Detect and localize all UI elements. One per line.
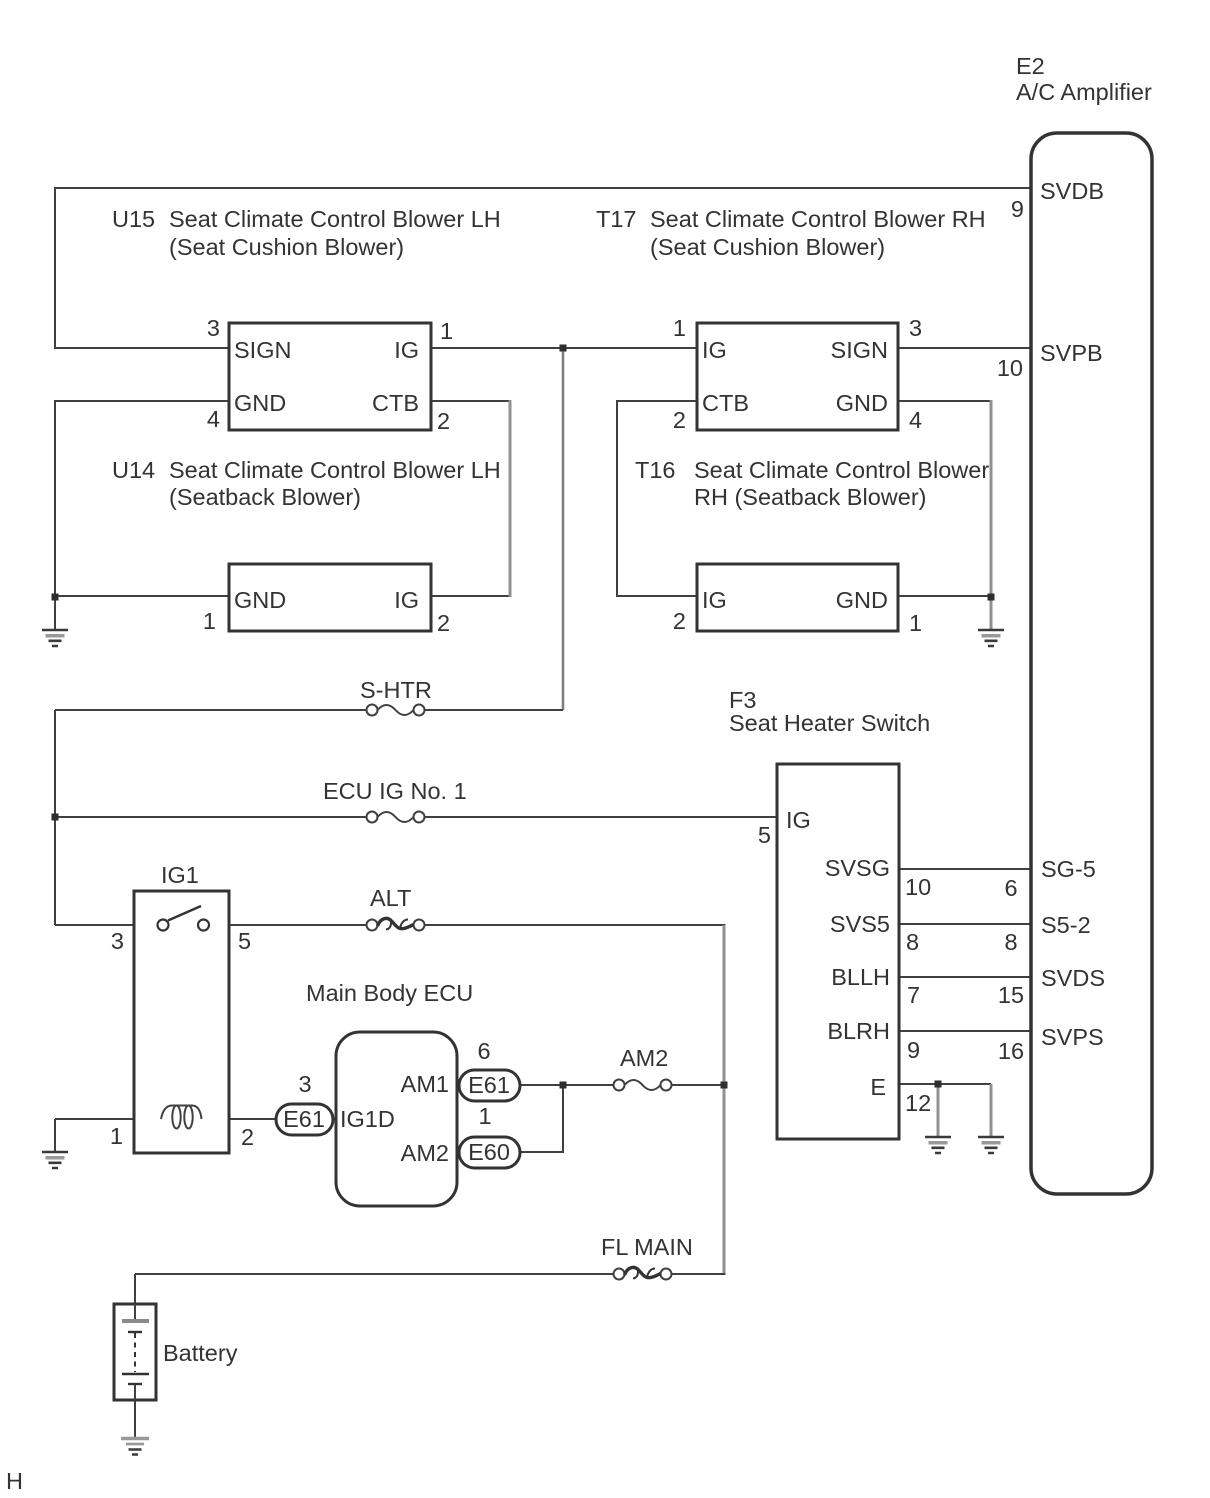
svg-text:10: 10: [997, 355, 1023, 381]
svg-text:SVPB: SVPB: [1040, 340, 1103, 366]
svg-text:SVPS: SVPS: [1041, 1024, 1104, 1050]
svg-text:6: 6: [477, 1038, 490, 1064]
svg-text:S5-2: S5-2: [1041, 912, 1091, 938]
svg-text:(Seatback Blower): (Seatback Blower): [169, 484, 361, 510]
svg-text:Battery: Battery: [163, 1340, 238, 1366]
svg-text:15: 15: [998, 982, 1024, 1008]
svg-text:U15: U15: [112, 206, 155, 232]
svg-text:SIGN: SIGN: [831, 337, 888, 363]
svg-text:H: H: [6, 1468, 23, 1494]
svg-text:Seat Climate Control Blower: Seat Climate Control Blower: [694, 457, 989, 483]
svg-text:GND: GND: [234, 390, 286, 416]
svg-text:E61: E61: [468, 1072, 510, 1098]
svg-text:S-HTR: S-HTR: [360, 677, 432, 703]
svg-text:5: 5: [238, 928, 251, 954]
svg-text:IG: IG: [394, 587, 419, 613]
svg-text:ALT: ALT: [370, 885, 411, 911]
svg-text:1: 1: [909, 610, 922, 636]
svg-text:7: 7: [907, 982, 920, 1008]
svg-text:5: 5: [758, 822, 771, 848]
svg-text:2: 2: [437, 408, 450, 434]
svg-text:SVS5: SVS5: [830, 911, 890, 937]
svg-text:8: 8: [906, 929, 919, 955]
svg-text:3: 3: [298, 1071, 311, 1097]
svg-text:2: 2: [673, 407, 686, 433]
svg-text:3: 3: [909, 315, 922, 341]
svg-text:GND: GND: [234, 587, 286, 613]
svg-text:6: 6: [1004, 875, 1017, 901]
svg-text:Seat Climate Control Blower LH: Seat Climate Control Blower LH: [169, 457, 501, 483]
svg-text:IG: IG: [786, 807, 811, 833]
svg-text:2: 2: [673, 608, 686, 634]
svg-text:10: 10: [905, 874, 931, 900]
svg-text:IG1: IG1: [161, 862, 199, 888]
svg-text:SVDS: SVDS: [1041, 965, 1105, 991]
svg-text:BLRH: BLRH: [827, 1018, 890, 1044]
svg-text:IG: IG: [394, 337, 419, 363]
svg-text:3: 3: [207, 315, 220, 341]
svg-text:8: 8: [1004, 929, 1017, 955]
svg-text:ECU IG No. 1: ECU IG No. 1: [323, 778, 467, 804]
svg-text:AM1: AM1: [401, 1071, 449, 1097]
svg-text:2: 2: [241, 1124, 254, 1150]
svg-text:SG-5: SG-5: [1041, 856, 1096, 882]
svg-text:AM2: AM2: [620, 1045, 668, 1071]
svg-text:9: 9: [907, 1037, 920, 1063]
svg-text:BLLH: BLLH: [831, 964, 890, 990]
svg-text:T16: T16: [635, 457, 676, 483]
svg-text:T17: T17: [596, 206, 637, 232]
svg-text:E2: E2: [1016, 53, 1045, 79]
svg-text:9: 9: [1011, 196, 1024, 222]
svg-text:RH (Seatback Blower): RH (Seatback Blower): [694, 484, 926, 510]
svg-text:4: 4: [207, 406, 220, 432]
svg-text:1: 1: [440, 318, 453, 344]
svg-text:U14: U14: [112, 457, 155, 483]
svg-text:1: 1: [203, 608, 216, 634]
svg-text:GND: GND: [836, 587, 888, 613]
svg-text:Seat Climate Control Blower RH: Seat Climate Control Blower RH: [650, 206, 986, 232]
svg-text:Seat Climate Control Blower LH: Seat Climate Control Blower LH: [169, 206, 501, 232]
svg-text:SVDB: SVDB: [1040, 178, 1104, 204]
svg-text:IG: IG: [702, 587, 727, 613]
svg-text:CTB: CTB: [702, 390, 749, 416]
svg-text:16: 16: [998, 1038, 1024, 1064]
svg-text:AM2: AM2: [401, 1140, 449, 1166]
svg-text:E61: E61: [283, 1106, 325, 1132]
svg-text:1: 1: [478, 1103, 491, 1129]
svg-text:12: 12: [905, 1090, 931, 1116]
svg-text:GND: GND: [836, 390, 888, 416]
svg-text:IG1D: IG1D: [340, 1106, 395, 1132]
svg-text:(Seat Cushion Blower): (Seat Cushion Blower): [169, 234, 404, 260]
svg-text:E60: E60: [468, 1139, 510, 1165]
svg-text:Seat Heater Switch: Seat Heater Switch: [729, 710, 930, 736]
svg-text:IG: IG: [702, 337, 727, 363]
svg-text:1: 1: [673, 315, 686, 341]
svg-text:SVSG: SVSG: [825, 855, 890, 881]
svg-text:FL MAIN: FL MAIN: [601, 1234, 693, 1260]
svg-text:CTB: CTB: [372, 390, 419, 416]
svg-text:SIGN: SIGN: [234, 337, 291, 363]
svg-text:(Seat Cushion Blower): (Seat Cushion Blower): [650, 234, 885, 260]
svg-text:Main Body ECU: Main Body ECU: [306, 980, 473, 1006]
svg-text:1: 1: [110, 1123, 123, 1149]
svg-text:3: 3: [111, 928, 124, 954]
svg-text:2: 2: [437, 610, 450, 636]
svg-text:A/C Amplifier: A/C Amplifier: [1016, 79, 1152, 105]
svg-text:4: 4: [909, 407, 922, 433]
svg-text:E: E: [870, 1074, 886, 1100]
